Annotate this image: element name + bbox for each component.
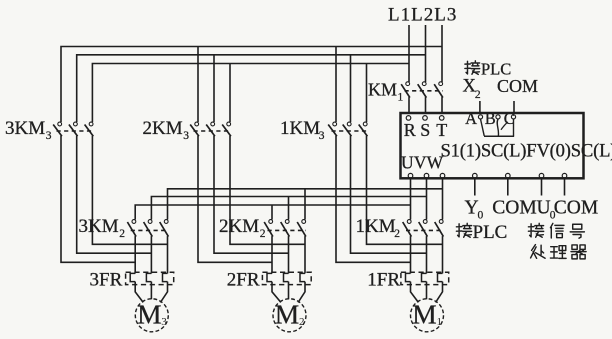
contactor 1KM3 pole1 contact xyxy=(333,122,337,126)
svg-text:2KM: 2KM xyxy=(143,118,183,139)
wire KM1 pole2 to inverter input xyxy=(425,97,427,114)
svg-text:2FR: 2FR xyxy=(227,270,260,291)
contactor 1KM2 linkage xyxy=(406,229,444,231)
wire 3KM3 pole1 output to motor branch xyxy=(61,136,135,263)
wire drop to 2KM2 pole1 xyxy=(271,205,273,220)
contactor 3KM2 pole2 contact xyxy=(148,220,152,224)
svg-text:KM: KM xyxy=(368,79,397,99)
contactor 2KM2 pole3 contact xyxy=(302,220,306,224)
svg-text:1: 1 xyxy=(437,316,443,328)
wire 3KM2 pole2 to 3FR xyxy=(150,236,152,273)
terminal COM1 circle xyxy=(506,173,511,178)
terminal U circle xyxy=(408,173,413,178)
frequency inverter box xyxy=(401,113,584,178)
svg-text:PLC: PLC xyxy=(473,222,508,243)
label jie (signal line) glyph xyxy=(528,223,543,237)
label chu glyph xyxy=(531,245,546,259)
contactor 3KM2 pole1 contact xyxy=(132,220,136,224)
svg-text:3FR: 3FR xyxy=(90,270,123,291)
contactor 2KM2 linkage xyxy=(268,229,307,231)
label li glyph xyxy=(550,246,566,259)
label jie bottom glyph xyxy=(456,223,471,237)
thermal element 2FR pole1 xyxy=(267,273,272,281)
label hao glyph xyxy=(570,224,584,238)
wire M1 lead middle xyxy=(426,282,428,300)
svg-text:0: 0 xyxy=(478,210,484,222)
svg-text:2: 2 xyxy=(119,228,125,240)
wire KM1 pole3 to inverter input xyxy=(441,97,443,114)
thermal element 1FR pole3 xyxy=(438,273,443,281)
svg-text:R: R xyxy=(404,120,416,140)
thermal relay 1FR dashed box xyxy=(401,272,449,284)
wire jumper bottom bus xyxy=(484,135,514,137)
wire M2 lead right xyxy=(298,282,305,303)
wire 3KM2 pole3 to 3FR xyxy=(167,236,169,273)
contactor KM1 pole3 contact xyxy=(439,82,443,86)
terminal Y0 circle xyxy=(473,173,478,178)
thermal relay 3FR dashed box xyxy=(126,272,174,284)
wire 3KM3 pole2 output to motor branch xyxy=(77,136,152,254)
wire 2KM2 pole3 to 2FR xyxy=(304,236,306,273)
contactor 2KM3 pole2 contact xyxy=(211,122,215,126)
terminal C circle xyxy=(511,115,515,119)
svg-text:Y: Y xyxy=(465,197,479,218)
wire drop to 2KM3 pole1 xyxy=(197,47,199,123)
wire drop to 2KM2 pole2 xyxy=(288,197,290,220)
wire M3 lead right xyxy=(160,282,167,303)
svg-text:2: 2 xyxy=(260,228,266,240)
svg-text:1KM: 1KM xyxy=(356,216,396,237)
svg-text:1KM: 1KM xyxy=(280,118,320,139)
svg-text:3: 3 xyxy=(183,130,189,142)
contactor 3KM3 pole3 contact xyxy=(89,122,93,126)
terminal S circle xyxy=(423,116,428,121)
contactor 3KM2 linkage xyxy=(131,229,169,231)
svg-text:2: 2 xyxy=(475,89,481,101)
wire bus from L1 to 3KM3 pole3 xyxy=(92,64,409,123)
contactor 2KM3 pole3 contact xyxy=(227,122,231,126)
thermal element 3FR pole3 xyxy=(163,273,168,281)
contactor 1KM2 pole3 contact xyxy=(439,220,443,224)
terminal T circle xyxy=(439,116,444,121)
wire W drop to 1KM2 pole3 xyxy=(442,179,444,219)
wire 1KM3 pole2 output to motor branch xyxy=(351,136,427,254)
wire 2KM3 pole1 output to motor branch xyxy=(198,136,272,263)
svg-text:2: 2 xyxy=(394,228,400,240)
thermal element 1FR pole2 xyxy=(422,273,427,281)
wire jumper from A down xyxy=(481,119,485,136)
wire L3 xyxy=(441,25,443,82)
contactor KM1 pole1 contact xyxy=(406,82,410,86)
svg-text:3: 3 xyxy=(46,130,52,142)
wire 2KM3 pole3 output to motor branch xyxy=(230,136,305,245)
wire M1 lead left xyxy=(411,282,419,303)
wire 1KM3 pole3 output to motor branch xyxy=(367,136,443,245)
wire M2 lead left xyxy=(272,282,281,303)
label xin glyph xyxy=(550,223,564,238)
wire 2KM2 pole1 to 2FR xyxy=(271,236,273,273)
wire drop to 1KM3 pole2 xyxy=(350,55,352,122)
wire 1KM3 pole1 output to motor branch xyxy=(336,136,411,263)
terminal B circle xyxy=(496,115,500,119)
svg-text:1FR: 1FR xyxy=(367,270,400,291)
svg-text:3: 3 xyxy=(319,130,325,142)
contactor 3KM3 pole1 contact xyxy=(58,122,62,126)
terminal U0 circle xyxy=(539,173,544,178)
svg-text:PLC: PLC xyxy=(481,60,511,79)
svg-text:S: S xyxy=(420,120,430,140)
contactor 3KM2 pole3 contact xyxy=(164,220,168,224)
contactor 3KM3 pole2 contact xyxy=(74,122,78,126)
wire bus W to 3KM2 pole3 xyxy=(168,189,443,220)
terminal R circle xyxy=(406,116,411,121)
wire drop to 2KM3 pole2 xyxy=(213,55,215,122)
contactor 3KM3 linkage xyxy=(57,130,94,132)
svg-text:M: M xyxy=(137,299,161,330)
wire L2 xyxy=(425,25,427,82)
wire 1KM2 pole1 to 1FR xyxy=(410,236,412,273)
wire drop to 1KM3 pole1 xyxy=(335,47,337,123)
wire M2 lead middle xyxy=(288,282,290,300)
terminal V circle xyxy=(424,173,429,178)
contactor 1KM3 linkage xyxy=(332,130,368,132)
contactor 1KM3 pole3 contact xyxy=(363,122,367,126)
wire X2 to A xyxy=(479,101,481,114)
wire 1KM2 pole3 to 1FR xyxy=(442,236,444,273)
contactor 2KM2 pole1 contact xyxy=(269,220,273,224)
thermal element 2FR pole3 xyxy=(300,273,305,281)
contactor 1KM2 pole2 contact xyxy=(423,220,427,224)
wire 3KM3 pole3 output to motor branch xyxy=(92,136,167,245)
svg-text:M: M xyxy=(275,299,299,330)
contactor 1KM3 pole2 contact xyxy=(347,122,351,126)
label jie top (connect) glyph xyxy=(465,61,480,74)
contactor KM1 linkage xyxy=(405,90,444,92)
wire KM1 pole1 to inverter input xyxy=(408,97,410,114)
wire drop to 2KM3 pole3 xyxy=(229,64,231,123)
svg-text:B: B xyxy=(485,109,496,128)
wire drop to 1KM3 pole3 xyxy=(366,64,368,123)
wire jumper from B down xyxy=(497,119,498,136)
wire stub Y0 xyxy=(474,179,476,195)
wire stub COM2 xyxy=(564,179,566,195)
wire M3 lead middle xyxy=(150,282,152,300)
svg-text:COM: COM xyxy=(554,197,598,218)
svg-text:2KM: 2KM xyxy=(219,216,259,237)
terminal A circle xyxy=(478,115,482,119)
svg-text:3: 3 xyxy=(161,316,167,328)
wire COM to C xyxy=(513,101,515,114)
motor M2 circle xyxy=(273,299,306,332)
wire bus U to 3KM2 pole1 xyxy=(135,205,410,220)
wire jumper curved link B-C xyxy=(501,122,508,130)
contactor 2KM3 pole1 contact xyxy=(195,122,199,126)
svg-text:3KM: 3KM xyxy=(5,118,45,139)
terminal W circle xyxy=(440,173,445,178)
wire 3KM2 pole1 to 3FR xyxy=(134,236,136,273)
svg-text:T: T xyxy=(436,120,447,140)
svg-text:L1L2L3: L1L2L3 xyxy=(388,5,457,26)
wire L1 xyxy=(408,25,410,82)
svg-text:COM: COM xyxy=(497,76,538,96)
thermal element 2FR pole2 xyxy=(284,273,289,281)
wire 2KM2 pole2 to 2FR xyxy=(288,236,290,273)
wire 2KM3 pole2 output to motor branch xyxy=(214,136,289,254)
terminal COM2 circle xyxy=(562,173,567,178)
wire bus V to 3KM2 pole2 xyxy=(151,197,426,220)
svg-text:A: A xyxy=(465,109,477,128)
svg-text:COM: COM xyxy=(492,197,536,218)
wire stub U0 xyxy=(541,179,543,195)
motor M3 circle xyxy=(135,299,168,332)
wire V drop to 1KM2 pole2 xyxy=(426,179,428,219)
thermal relay 2FR dashed box xyxy=(262,272,311,284)
contactor 2KM3 linkage xyxy=(194,130,232,132)
wire stub COM1 xyxy=(507,179,509,195)
svg-text:S1(1)SC(L)FV(0)SC(L): S1(1)SC(L)FV(0)SC(L) xyxy=(441,141,612,162)
svg-text:2: 2 xyxy=(299,316,305,328)
svg-text:3KM: 3KM xyxy=(79,216,119,237)
label qi glyph xyxy=(571,245,586,259)
contactor 2KM2 pole2 contact xyxy=(285,220,289,224)
contactor KM1 pole2 contact xyxy=(422,82,426,86)
svg-text:1: 1 xyxy=(398,92,404,104)
contactor 1KM2 pole1 contact xyxy=(407,220,411,224)
wire M3 lead left xyxy=(135,282,143,303)
wire bus from L2 to 3KM3 pole2 xyxy=(77,55,426,122)
svg-text:M: M xyxy=(412,299,436,330)
wire bus from L3 to 3KM3 pole1 xyxy=(61,47,442,123)
wire 1KM2 pole2 to 1FR xyxy=(426,236,428,273)
wire U drop to 1KM2 pole1 xyxy=(410,179,412,219)
svg-text:UVW: UVW xyxy=(401,152,444,172)
svg-text:U: U xyxy=(537,197,551,218)
thermal element 1FR pole1 xyxy=(406,273,411,281)
thermal element 3FR pole1 xyxy=(130,273,135,281)
motor M1 circle xyxy=(411,299,444,332)
wire M1 lead right xyxy=(436,282,443,303)
thermal element 3FR pole2 xyxy=(146,273,151,281)
wire drop to 2KM2 pole3 xyxy=(304,189,306,220)
wire jumper from C down xyxy=(513,119,515,136)
